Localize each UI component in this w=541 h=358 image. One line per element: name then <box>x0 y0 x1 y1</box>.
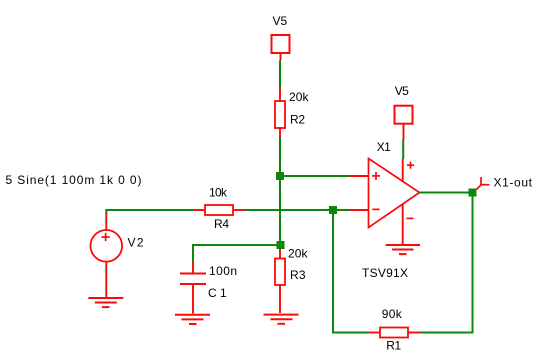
ground (below R3) <box>264 315 299 324</box>
svg-text:V5: V5 <box>395 84 409 98</box>
wire V5 jumper to op-amp supply pin <box>402 139 404 159</box>
svg-text:R4: R4 <box>214 217 229 231</box>
svg-text:R2: R2 <box>290 113 305 127</box>
node C (junction: R4 / -input / feedback R1) <box>329 206 337 214</box>
wire R4 to node C <box>245 209 330 211</box>
svg-text:X1-out: X1-out <box>494 175 533 189</box>
wire R2 to node A <box>279 137 281 173</box>
resistor R4 <box>194 205 245 215</box>
svg-text:TSV91X: TSV91X <box>362 266 408 280</box>
wire node C to op-amp -input <box>337 209 351 211</box>
wire node B to C1 <box>192 244 277 262</box>
ground (below C1) <box>175 315 210 324</box>
svg-text:90k: 90k <box>382 307 403 321</box>
node B (junction: divider / R3 / C1) <box>277 241 285 249</box>
wire feedback up to node C <box>332 213 334 334</box>
svg-text:C 1: C 1 <box>208 286 227 300</box>
capacitor C1 <box>180 262 206 314</box>
svg-text:100n: 100n <box>209 264 237 278</box>
wire node A down to node B (crosses R4 wire) <box>279 180 281 242</box>
resistor R3 <box>275 249 285 313</box>
wire R1 right segment <box>420 332 474 334</box>
resistor R1 <box>368 328 420 338</box>
resistor R2 <box>275 88 285 138</box>
voltage source V2 <box>91 213 123 298</box>
svg-text:10k: 10k <box>209 186 228 200</box>
wire V2 to R4 <box>105 210 194 214</box>
svg-text:R3: R3 <box>290 268 306 282</box>
svg-text:20k: 20k <box>288 247 309 261</box>
wire node D down to R1 (feedback right side) <box>472 196 474 334</box>
svg-text:V5: V5 <box>273 14 288 28</box>
svg-text:R1: R1 <box>386 339 401 353</box>
ground (below V2) <box>88 298 123 307</box>
jumper V5 (op-amp positive supply) <box>395 106 413 140</box>
wire node A to op-amp +input <box>284 175 351 177</box>
node A (junction: R2 / +input / bias divider) <box>276 172 284 180</box>
wire op-amp output to node D <box>420 192 470 194</box>
jumper V5 (top, supplies R2) <box>272 35 290 61</box>
op-amp U1 (X1 TSV91X) <box>350 159 420 246</box>
ground (op-amp negative supply) <box>386 245 421 254</box>
svg-text:X1: X1 <box>377 140 391 154</box>
wire R1 left segment <box>332 332 369 334</box>
svg-text:5 Sine(1 100m 1k 0 0): 5 Sine(1 100m 1k 0 0) <box>6 173 142 187</box>
node D (junction: output / X1-out / feedback) <box>469 189 477 197</box>
svg-text:20k: 20k <box>289 90 310 104</box>
wire V5 jumper to R2 <box>279 61 281 89</box>
output terminal X1-out <box>477 177 490 190</box>
